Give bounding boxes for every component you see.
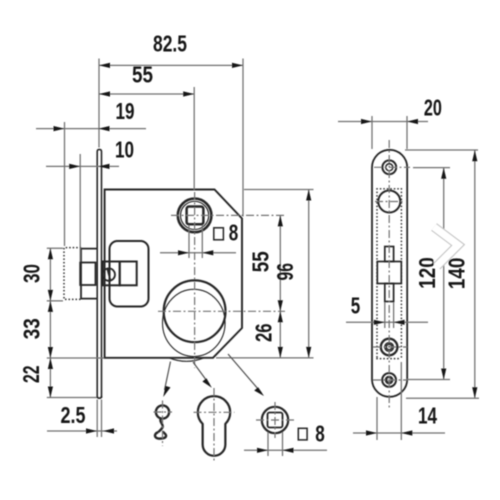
bottom screw inner bbox=[386, 376, 393, 383]
dimension 26 top arrowhead bbox=[278, 311, 283, 322]
latch screw slot bbox=[107, 268, 110, 281]
dimension 19 line bbox=[36, 128, 146, 130]
dimension 22 bottom arrowhead bbox=[48, 387, 53, 398]
svg-text:19: 19 bbox=[116, 98, 135, 124]
dimension 5 left arrowhead bbox=[374, 320, 385, 325]
break chevron symbol bbox=[432, 224, 463, 268]
dimension 8 bottom line bbox=[244, 449, 327, 451]
dimension 82.5 left extension line bbox=[98, 59, 100, 148]
dimension 120 top arrowhead bbox=[441, 168, 446, 179]
dimension 14 right arrowhead bbox=[401, 430, 412, 435]
dimension 26 label bbox=[251, 324, 277, 343]
svg-text:55: 55 bbox=[248, 251, 274, 272]
dimension 30 bottom arrowhead bbox=[48, 290, 53, 301]
square symbol hub bbox=[214, 228, 224, 240]
dimension 8 hub left arrowhead bbox=[178, 250, 189, 255]
dimension 22 top arrowhead bbox=[48, 358, 53, 369]
dimension 82.5 left arrowhead bbox=[99, 63, 110, 68]
dimension 5 extension lines bbox=[384, 303, 386, 329]
svg-text:5: 5 bbox=[351, 293, 361, 319]
dimension 10 line bbox=[46, 165, 119, 167]
dimension 5 right arrowhead bbox=[394, 320, 405, 325]
dimension 33 label bbox=[19, 318, 45, 339]
dimension 140 top arrowhead bbox=[472, 150, 477, 161]
middle screw outer bbox=[381, 339, 398, 356]
dimension 96 label bbox=[272, 263, 298, 281]
middle screw inner bbox=[385, 343, 394, 352]
dimension 120 line bbox=[443, 168, 445, 380]
square detail centerlines bbox=[256, 419, 294, 421]
cylinder body protrusion arc below case bbox=[169, 358, 204, 362]
dimension 33 bottom arrowhead bbox=[48, 347, 53, 358]
svg-text:26: 26 bbox=[251, 324, 277, 343]
dimension 55 top extension line bbox=[193, 87, 195, 190]
dimension 8 hub line bbox=[160, 252, 236, 254]
dimension 96 bottom arrowhead bbox=[306, 347, 311, 358]
svg-text:14: 14 bbox=[418, 403, 437, 429]
dimension 14 left arrowhead bbox=[366, 430, 377, 435]
middle screw horizontal centerline bbox=[373, 346, 407, 348]
square detail square bbox=[268, 413, 283, 428]
svg-text:8: 8 bbox=[229, 220, 239, 246]
latch unit rounded rectangle bbox=[110, 241, 149, 307]
dimension 2.5 line bbox=[47, 430, 117, 432]
svg-text:30: 30 bbox=[19, 264, 45, 283]
faceplate bottom end bbox=[97, 396, 101, 398]
left chain tick y358 bbox=[47, 357, 104, 359]
spindle hub inner circle bbox=[181, 201, 209, 229]
dimension 120 top extension bbox=[413, 167, 450, 169]
key detail stem bbox=[158, 418, 163, 432]
dimension 140 top extension bbox=[405, 149, 478, 151]
euro cylinder centerlines bbox=[194, 411, 235, 413]
dimension 55 right bottom arrowhead bbox=[278, 300, 283, 311]
latch bolt front block bbox=[80, 263, 95, 286]
latch screw box bbox=[103, 262, 120, 286]
key detail centerlines bbox=[154, 411, 173, 413]
spindle hub outer circle bbox=[178, 199, 212, 233]
dimension 20 right arrowhead bbox=[407, 119, 418, 124]
svg-text:2.5: 2.5 bbox=[61, 402, 86, 428]
lock case dotted outline in front view bbox=[377, 189, 401, 359]
dimension 20 line bbox=[338, 121, 428, 123]
key detail foot bbox=[155, 431, 166, 438]
svg-text:96: 96 bbox=[272, 263, 298, 281]
latch screw circle bbox=[103, 268, 115, 280]
svg-text:140: 140 bbox=[444, 258, 470, 290]
top screw outer bbox=[382, 160, 396, 174]
dimension 55 right top arrowhead bbox=[278, 215, 283, 226]
auxiliary hole bbox=[378, 191, 400, 213]
dimension 140 bottom extension bbox=[406, 397, 479, 399]
cylinder hole circle bbox=[164, 280, 226, 342]
bolt front view body bbox=[377, 262, 401, 284]
dimension 120 bottom arrowhead bbox=[441, 369, 446, 380]
cylinder horizontal centerline bbox=[158, 310, 285, 312]
hub horizontal centerline bbox=[171, 214, 285, 216]
auxiliary hole horizontal centerline bbox=[375, 201, 404, 203]
dimension 8 bottom right arrowhead bbox=[283, 448, 294, 453]
dimension 55 top right arrowhead bbox=[183, 91, 194, 96]
spindle square hole bbox=[187, 207, 204, 225]
middle screw socket bbox=[387, 344, 392, 350]
bolt front view neck top bbox=[385, 247, 394, 262]
faceplate front view stadium outline bbox=[372, 150, 407, 397]
dimension 2.5 extension lines bbox=[96, 400, 98, 438]
dimension 140 line bbox=[474, 150, 476, 398]
faceplate side view bbox=[97, 149, 101, 398]
dimension 2.5 right arrowhead bbox=[103, 428, 114, 433]
dimension 2.5 left arrowhead bbox=[86, 428, 97, 433]
dimension 140 bottom arrowhead bbox=[472, 387, 477, 398]
top screw inner bbox=[386, 164, 393, 171]
svg-text:10: 10 bbox=[115, 137, 134, 163]
lock body outline bbox=[105, 190, 242, 358]
dimension 8 bottom extension lines bbox=[267, 432, 269, 456]
key detail ring bbox=[156, 405, 169, 418]
svg-text:22: 22 bbox=[18, 366, 44, 384]
dimension 140 label bbox=[444, 258, 470, 290]
dimension 22 label bbox=[18, 366, 44, 384]
dimension 120 label bbox=[414, 257, 440, 289]
left chain dimension line bbox=[49, 248, 51, 397]
left chain tick y248 bbox=[47, 247, 63, 249]
euro cylinder detail outline bbox=[198, 396, 230, 456]
body bottom edge extension bbox=[216, 357, 314, 359]
dimension 10 left arrowhead bbox=[69, 164, 80, 169]
bottom screw outer bbox=[382, 373, 396, 387]
dimension 30 top arrowhead bbox=[48, 248, 53, 259]
right chain 55 dimension line bbox=[279, 215, 281, 358]
dimension 20 left arrowhead bbox=[361, 119, 372, 124]
dimension 8 hub extension lines bbox=[188, 225, 190, 258]
top screw horizontal centerline bbox=[374, 166, 410, 168]
dimension 120 bottom extension bbox=[406, 379, 450, 381]
dimension 19 extension line bbox=[64, 122, 66, 246]
dimension 96 line bbox=[308, 190, 310, 358]
svg-text:8: 8 bbox=[315, 421, 325, 447]
left chain tick y397.5 bbox=[47, 397, 97, 399]
dimension 26 bottom arrowhead bbox=[278, 347, 283, 358]
svg-text:33: 33 bbox=[19, 318, 45, 339]
square detail circle bbox=[262, 407, 288, 433]
dimension 55 right label bbox=[248, 251, 274, 272]
dimension 14 line bbox=[353, 432, 445, 434]
dimension 20 extension lines bbox=[371, 116, 373, 149]
dimension 5 line bbox=[346, 321, 428, 323]
svg-text:20: 20 bbox=[424, 95, 442, 121]
cylinder clearance thin circle bbox=[163, 289, 226, 356]
square symbol bottom bbox=[298, 428, 307, 440]
bolt extended phantom dotted outline bbox=[64, 248, 81, 300]
dimension 8 hub right arrowhead bbox=[202, 250, 213, 255]
plate vertical centerline bbox=[388, 140, 390, 409]
dimension 82.5 right arrowhead bbox=[232, 63, 243, 68]
dimension 19 left arrowhead bbox=[54, 126, 65, 131]
latch bolt rear block bbox=[81, 249, 98, 299]
dimension 82.5 right extension line bbox=[242, 59, 244, 217]
leader arrow to square detail bbox=[228, 354, 262, 393]
body top edge extension bbox=[244, 189, 314, 191]
dimension 19 right arrowhead bbox=[99, 126, 110, 131]
bottom screw horizontal centerline bbox=[373, 379, 407, 381]
dimension 96 top arrowhead bbox=[306, 190, 311, 201]
dimension 8 bottom left arrowhead bbox=[257, 448, 268, 453]
body vertical centerline bbox=[194, 192, 196, 368]
dimension 55 top line bbox=[99, 93, 194, 95]
leader arrow to key detail bbox=[165, 362, 171, 391]
dimension 30 label bbox=[19, 264, 45, 283]
latch follower box bbox=[120, 262, 137, 286]
dimension 33 top arrowhead bbox=[48, 301, 53, 312]
bolt front view neck bottom bbox=[385, 284, 394, 302]
svg-text:55: 55 bbox=[132, 62, 153, 88]
dimension 55 top left arrowhead bbox=[99, 91, 110, 96]
dimension 10 extension line bbox=[79, 154, 81, 262]
svg-text:82.5: 82.5 bbox=[153, 31, 187, 57]
dimension 14 extension lines bbox=[376, 397, 378, 440]
leader arrow to cylinder detail bbox=[193, 362, 210, 385]
bottom screw socket bbox=[387, 378, 391, 383]
left chain tick y301 bbox=[47, 300, 63, 302]
dimension 10 right arrowhead bbox=[99, 164, 110, 169]
dimension 82.5 line bbox=[99, 64, 243, 66]
